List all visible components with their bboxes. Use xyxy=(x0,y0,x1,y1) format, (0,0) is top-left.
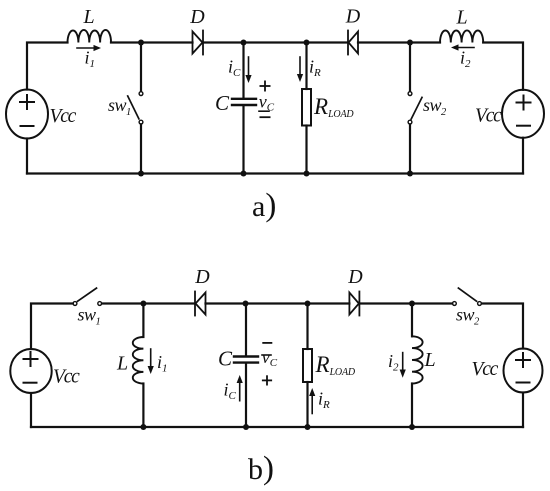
arrow iC (a) xyxy=(245,57,251,83)
svg-text:RLOAD: RLOAD xyxy=(313,94,354,120)
arrow i1 (a) xyxy=(77,45,101,51)
svg-text:L: L xyxy=(424,349,436,371)
voltage source Vcc (b, right) xyxy=(504,349,543,393)
svg-text:sw1: sw1 xyxy=(108,95,131,118)
switch sw1 (a): bottom lead xyxy=(140,125,142,174)
minus sign of Vcc (a, left) xyxy=(21,125,34,127)
svg-text:iR: iR xyxy=(309,57,321,80)
svg-text:sw1: sw1 xyxy=(78,305,101,328)
voltage source Vcc (a, left) xyxy=(6,90,48,139)
plus sign of Vcc (a, right) xyxy=(517,96,531,110)
svg-text:C: C xyxy=(215,91,230,115)
plus sign of vC (a) xyxy=(260,81,269,90)
voltage source Vcc (a, right) xyxy=(502,90,544,138)
svg-text:Vcc: Vcc xyxy=(50,106,77,127)
plus sign of Vcc (b, right) xyxy=(516,353,530,367)
inductor L2 (b): coil xyxy=(412,336,423,383)
svg-text:D: D xyxy=(194,266,210,288)
node: a) top of sw1 branch xyxy=(138,40,144,46)
svg-text:L: L xyxy=(82,6,94,28)
wire: b) right bottom vertical xyxy=(522,393,524,428)
wire: a) right bottom vertical xyxy=(522,138,524,174)
inductor L1 (a, left) xyxy=(68,30,112,43)
switch sw2 (a): blade xyxy=(411,97,422,119)
switch sw1 (a): top lead xyxy=(140,43,142,92)
svg-text:Vcc: Vcc xyxy=(475,106,502,127)
switch sw1 (a): top contact circle xyxy=(139,92,143,96)
arrow iR (a) xyxy=(297,57,303,82)
switch sw2 (b): blade xyxy=(458,288,476,301)
svg-text:i1: i1 xyxy=(157,352,168,375)
inductor L2 (a, right) xyxy=(440,30,483,42)
switch sw2 (a): bottom lead xyxy=(409,125,411,174)
svg-text:iC: iC xyxy=(228,57,241,80)
svg-text:C: C xyxy=(218,347,233,371)
node: b) bottom of load branch xyxy=(305,424,311,430)
svg-text:iR: iR xyxy=(318,389,330,412)
wire: a) bottom rail xyxy=(27,172,523,174)
wire: b) top rail left segment xyxy=(31,304,73,350)
node: a) bottom of sw1 branch xyxy=(138,171,144,177)
wire: a) top rail right segment xyxy=(483,43,523,90)
svg-text:L: L xyxy=(116,353,128,375)
switch sw1 (b): blade xyxy=(78,288,97,301)
svg-text:sw2: sw2 xyxy=(423,95,447,118)
svg-text:a): a) xyxy=(252,188,276,224)
node: a) top of capacitor branch xyxy=(241,40,247,46)
minus sign of vC (b) xyxy=(263,342,271,344)
minus sign of vC (a) xyxy=(260,116,269,118)
switch sw2 (b): right contact circle xyxy=(478,302,482,306)
wire: a) top rail left segment xyxy=(27,43,68,90)
wire: b) bottom rail xyxy=(31,426,523,428)
minus sign of Vcc (a, right) xyxy=(517,125,530,127)
resistor RLOAD (a): body xyxy=(302,89,311,126)
inductor L1 (b): top lead xyxy=(142,304,144,338)
switch sw2 (a): bottom contact circle xyxy=(408,120,412,124)
switch sw1 (a): bottom contact circle xyxy=(139,120,143,124)
diode D1 (b, pointing left) xyxy=(195,292,206,316)
plus sign of vC (b) xyxy=(263,376,271,384)
svg-text:i2: i2 xyxy=(460,48,471,71)
voltage source Vcc (b, left) xyxy=(10,349,51,393)
arrow i1 (b) xyxy=(148,349,154,374)
svg-text:D: D xyxy=(347,266,363,288)
inductor L2 (b): bottom lead xyxy=(411,384,413,428)
switch sw1 (a): blade xyxy=(128,96,139,119)
minus sign of Vcc (b, right) xyxy=(517,382,530,384)
node: b) top of load branch xyxy=(305,301,311,307)
overline of vC (b) xyxy=(262,354,271,356)
resistor RLOAD (b): bottom lead xyxy=(306,382,308,427)
node: b) top of capacitor branch xyxy=(243,301,249,307)
diode D2 (b, pointing right) xyxy=(349,292,359,316)
node: a) bottom of capacitor branch xyxy=(241,171,247,177)
node: a) bottom of sw2 branch xyxy=(407,171,413,177)
resistor RLOAD (b): body xyxy=(303,349,312,382)
wire: a) top rail from D2 to L2 xyxy=(358,41,440,43)
diode D2 (a, right, pointing left) xyxy=(348,31,358,55)
wire: b) top rail right segment xyxy=(482,304,523,349)
node: a) top of sw2 branch xyxy=(407,40,413,46)
node: b) bottom of capacitor branch xyxy=(243,424,249,430)
capacitor C (a): plates xyxy=(232,99,256,105)
plus sign of Vcc (a, left) xyxy=(20,95,34,109)
svg-text:b): b) xyxy=(248,451,274,487)
svg-text:i2: i2 xyxy=(388,351,399,374)
capacitor C (b): top lead xyxy=(245,304,247,356)
svg-text:sw2: sw2 xyxy=(456,305,480,328)
switch sw1 (b): right contact circle xyxy=(98,302,102,306)
capacitor C (b): plates xyxy=(234,357,258,363)
wire: a) top rail from L1 to diode D1 xyxy=(111,41,193,43)
switch sw2 (a): top lead xyxy=(409,43,411,92)
plus sign of Vcc (b, left) xyxy=(24,352,38,366)
underline of vC (a) xyxy=(259,110,269,112)
svg-text:RLOAD: RLOAD xyxy=(315,352,356,378)
wire: b) top rail from sw1 to diode D1 xyxy=(102,302,195,304)
svg-text:vC: vC xyxy=(262,347,278,369)
wire: b) top rail from D2 to sw2 xyxy=(359,302,452,304)
diode D1 (a, left, pointing right) xyxy=(193,31,204,55)
node: a) bottom of load branch xyxy=(304,171,310,177)
resistor RLOAD (b): top lead xyxy=(306,304,308,350)
node: b) bottom of L1 branch xyxy=(140,424,146,430)
arrow i2 (a) xyxy=(451,44,474,50)
node: a) top of load branch xyxy=(304,40,310,46)
node: b) top of L2 branch xyxy=(409,301,415,307)
wire: b) left bottom vertical xyxy=(30,393,32,427)
capacitor C (a): top lead xyxy=(242,43,244,98)
wire: a) top rail from D1 to D2 xyxy=(203,41,348,43)
capacitor C (b): bottom lead xyxy=(245,364,247,427)
inductor L1 (b): coil xyxy=(133,337,144,384)
svg-text:D: D xyxy=(189,6,205,28)
svg-text:iC: iC xyxy=(224,380,237,403)
arrow i2 (b) xyxy=(400,353,406,378)
wire: a) left bottom vertical xyxy=(26,139,28,174)
svg-text:Vcc: Vcc xyxy=(472,359,499,380)
svg-text:D: D xyxy=(345,6,361,28)
resistor RLOAD (a): bottom lead xyxy=(305,126,307,174)
switch sw2 (b): left contact circle xyxy=(453,302,457,306)
arrow iC (b) xyxy=(237,375,243,401)
inductor L2 (b): top lead xyxy=(411,304,413,337)
resistor RLOAD (a): top lead xyxy=(305,43,307,90)
svg-text:Vcc: Vcc xyxy=(53,367,80,388)
node: b) top of L1 branch xyxy=(140,301,146,307)
switch sw2 (a): top contact circle xyxy=(408,92,412,96)
svg-text:i1: i1 xyxy=(85,48,96,71)
minus sign of Vcc (b, left) xyxy=(24,382,37,384)
arrow iR (b) xyxy=(309,388,315,414)
node: b) bottom of L2 branch xyxy=(409,424,415,430)
inductor L1 (b): bottom lead xyxy=(142,384,144,428)
switch sw1 (b): left contact circle xyxy=(73,302,77,306)
svg-text:L: L xyxy=(455,7,467,29)
capacitor C (a): bottom lead xyxy=(242,106,244,174)
wire: b) top rail from D1 to D2 xyxy=(206,302,350,304)
svg-text:vC: vC xyxy=(259,92,275,114)
